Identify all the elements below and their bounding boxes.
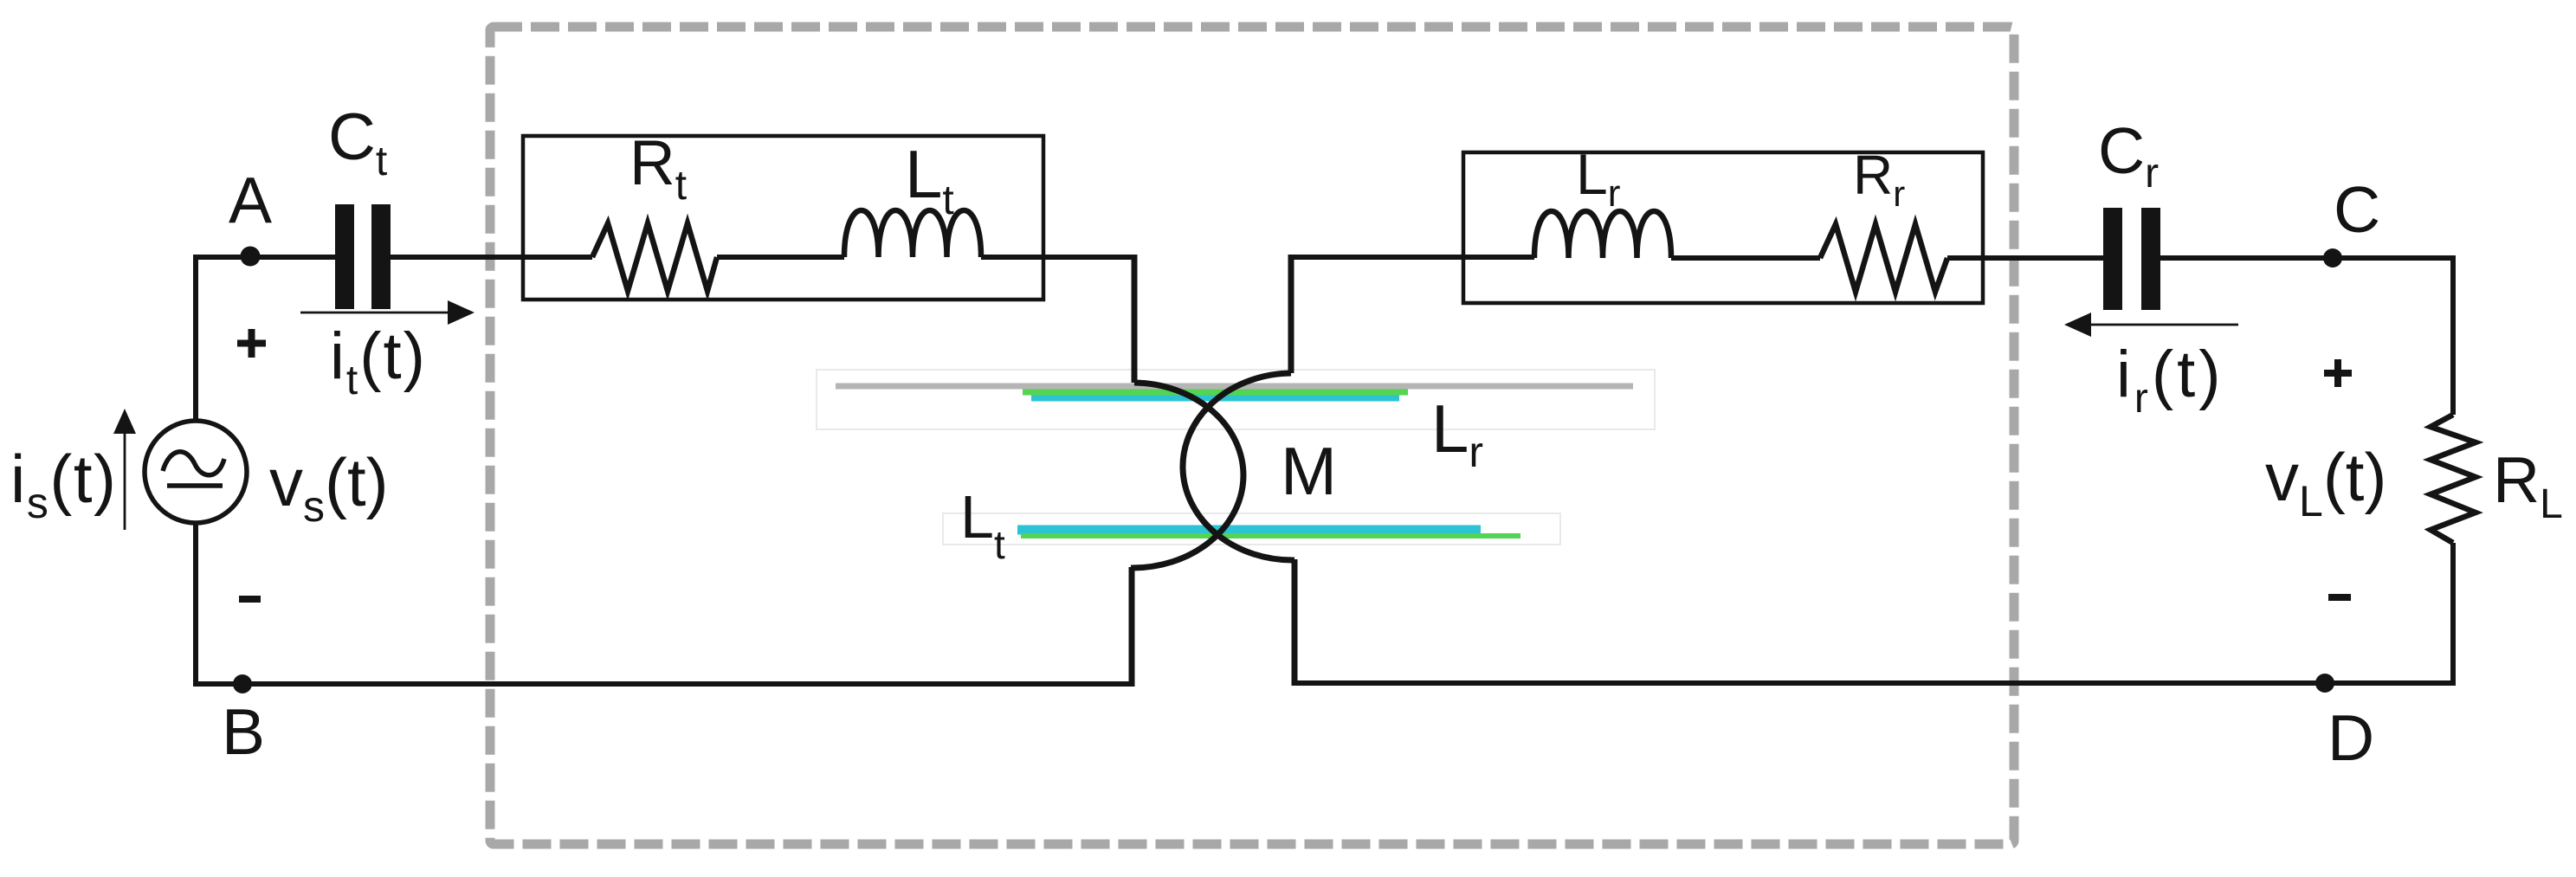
transmitter coil impedance box (Rt Lt) bbox=[523, 136, 1043, 300]
source underline bbox=[167, 483, 223, 488]
coil Lr plate cyan line bbox=[1031, 396, 1399, 402]
plus sign load side bbox=[2324, 359, 2352, 387]
coil Lr plate gray line bbox=[836, 384, 1633, 390]
svg-text:RL: RL bbox=[2493, 443, 2563, 527]
svg-text:Lt: Lt bbox=[905, 136, 954, 223]
svg-text:Lt: Lt bbox=[960, 483, 1005, 567]
svg-text:vs(t): vs(t) bbox=[269, 444, 389, 531]
inductor Lr bbox=[1534, 211, 1671, 258]
receiver coil impedance box (Lr Rr) bbox=[1463, 152, 1983, 303]
resistor Rr bbox=[1820, 224, 1947, 292]
capacitor Cr plate 1 bbox=[2103, 208, 2122, 310]
capacitor Cr plate 2 bbox=[2141, 208, 2160, 310]
svg-text:vL(t): vL(t) bbox=[2265, 439, 2386, 526]
coil Lr plate green line bbox=[1023, 390, 1408, 396]
wire right vertical upper (C to RL) bbox=[2450, 255, 2456, 415]
coupling arc left (transmitter loop) bbox=[1131, 383, 1243, 568]
minus sign source side bbox=[239, 596, 261, 603]
coil plate faint outline upper (Lr plate) bbox=[817, 370, 1655, 429]
svg-text:is(t): is(t) bbox=[10, 441, 117, 527]
svg-text:it(t): it(t) bbox=[330, 319, 427, 403]
coil Lt plate green line bbox=[1021, 533, 1520, 538]
wire upper-left coil stub bbox=[1132, 255, 1138, 383]
svg-text:Ct: Ct bbox=[328, 100, 387, 184]
svg-text:A: A bbox=[229, 164, 272, 236]
plus sign source side bbox=[237, 329, 266, 358]
coupling arc right (receiver loop) bbox=[1183, 373, 1294, 560]
wire bottom left (B run) bbox=[193, 681, 1134, 687]
wire Lr to Rr bbox=[1671, 255, 1820, 261]
arrow ir(t) bbox=[2088, 324, 2238, 326]
wire Cr to node C to right corner bbox=[2160, 255, 2456, 261]
dashed boundary box bbox=[490, 27, 2014, 844]
coil Lt plate cyan line bbox=[1017, 526, 1481, 535]
wire lower-right coil stub bbox=[1292, 559, 1298, 686]
minus sign load side bbox=[2328, 594, 2351, 601]
svg-text:ir(t): ir(t) bbox=[2116, 338, 2224, 422]
wire bottom right (D run) bbox=[1292, 680, 2456, 686]
svg-text:B: B bbox=[222, 695, 265, 768]
svg-text:M: M bbox=[1281, 433, 1337, 509]
svg-text:Cr: Cr bbox=[2098, 114, 2159, 197]
wire Ct to Rt bbox=[390, 255, 592, 260]
resistor Rt bbox=[592, 223, 717, 291]
node D bbox=[2315, 674, 2334, 693]
svg-text:Lr: Lr bbox=[1431, 390, 1483, 476]
wire Rt to Lt bbox=[717, 255, 844, 260]
wire upper-right coil stub bbox=[1288, 255, 1294, 373]
svg-text:C: C bbox=[2334, 173, 2380, 246]
inductor Lt bbox=[844, 210, 981, 257]
wire lower-left coil stub bbox=[1129, 567, 1135, 687]
source sine squiggle bbox=[163, 452, 224, 475]
coil plate faint outline lower (Lt plate) bbox=[943, 513, 1560, 545]
svg-text:D: D bbox=[2327, 701, 2374, 774]
capacitor Ct plate 2 bbox=[371, 204, 391, 309]
wire right vertical lower (RL to D) bbox=[2450, 543, 2456, 686]
wire left vertical lower (source to B) bbox=[193, 522, 198, 687]
node C bbox=[2323, 248, 2342, 268]
source vs circle bbox=[145, 421, 247, 523]
arrow it(t) bbox=[300, 312, 452, 314]
arrow is(t) bbox=[124, 429, 126, 530]
wire Rr to Cr bbox=[1947, 255, 2104, 261]
node B bbox=[233, 674, 252, 693]
resistor RL bbox=[2431, 415, 2476, 543]
wire Lt to upper-left coil stub bbox=[981, 255, 1134, 260]
wire upper-right coil stub to Lr bbox=[1291, 255, 1534, 260]
wire node A to Ct bbox=[193, 255, 336, 260]
node A bbox=[241, 247, 261, 267]
svg-text:Rt: Rt bbox=[629, 128, 687, 209]
capacitor Ct plate 1 bbox=[335, 204, 354, 309]
wire left vertical upper (A to source) bbox=[193, 255, 198, 422]
